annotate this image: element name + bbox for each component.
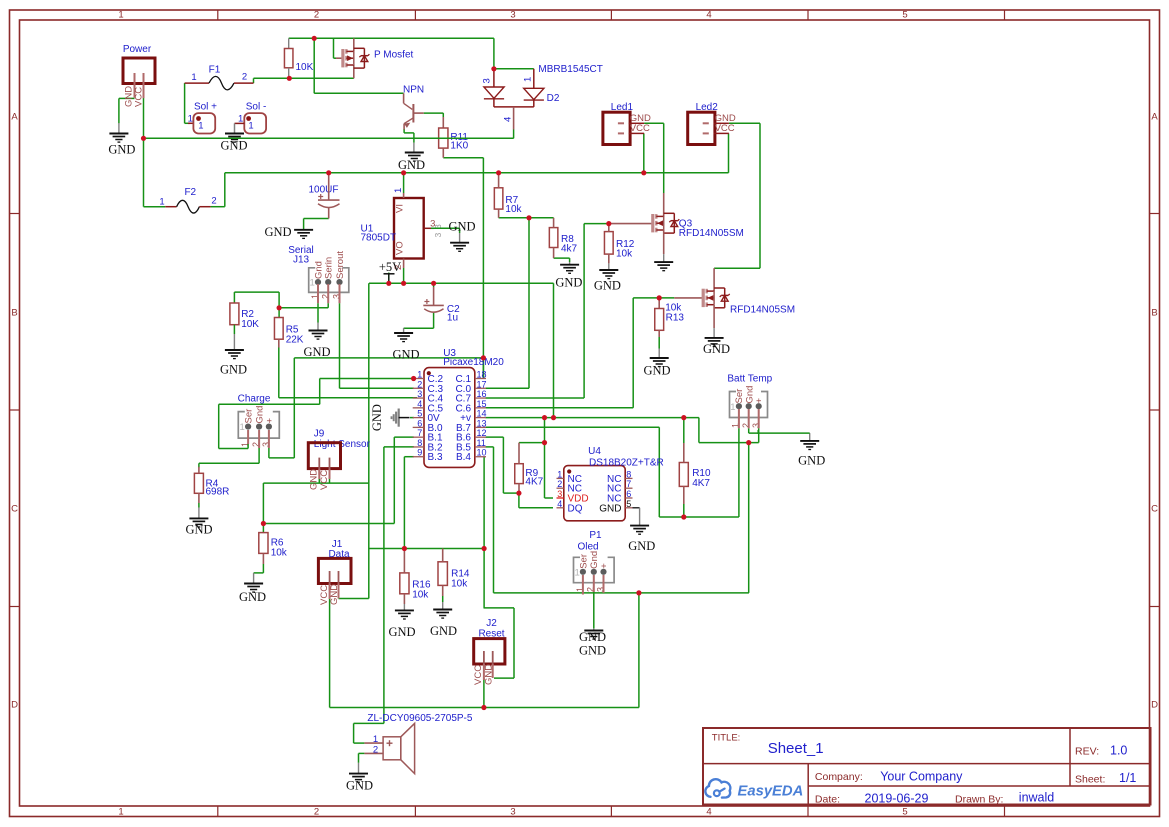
svg-text:10k: 10k (505, 204, 522, 215)
svg-text:1: 1 (159, 197, 164, 208)
svg-text:1: 1 (557, 469, 562, 479)
svg-text:4: 4 (706, 10, 711, 21)
svg-text:1: 1 (188, 114, 193, 125)
svg-text:6: 6 (417, 418, 422, 428)
svg-text:1: 1 (248, 120, 253, 131)
svg-text:100UF: 100UF (308, 184, 338, 195)
svg-text:+: + (754, 398, 765, 404)
svg-text:DQ: DQ (568, 503, 583, 514)
svg-text:GND: GND (220, 139, 247, 153)
svg-text:REV:: REV: (1075, 745, 1099, 757)
svg-text:1: 1 (118, 807, 123, 818)
svg-text:VO: VO (395, 241, 406, 255)
svg-text:Your Company: Your Company (880, 770, 963, 784)
svg-text:B.3: B.3 (428, 452, 443, 463)
svg-text:A: A (1151, 112, 1158, 123)
svg-text:8: 8 (417, 438, 422, 448)
svg-text:Serin: Serin (324, 257, 335, 279)
svg-text:Led1: Led1 (611, 102, 634, 113)
svg-text:22K: 22K (286, 334, 304, 345)
svg-text:GND: GND (264, 225, 291, 239)
svg-text:2: 2 (314, 10, 319, 21)
svg-text:3: 3 (417, 389, 422, 399)
svg-text:1: 1 (417, 370, 422, 380)
svg-text:GND: GND (448, 220, 475, 234)
svg-text:F2: F2 (184, 187, 196, 198)
svg-text:2: 2 (373, 745, 378, 756)
svg-text:1/1: 1/1 (1119, 771, 1136, 785)
svg-text:GND: GND (703, 342, 730, 356)
svg-text:10k: 10k (616, 249, 633, 260)
svg-text:GND: GND (579, 644, 606, 658)
svg-text:MBRB1545CT: MBRB1545CT (538, 64, 602, 75)
svg-text:VCC: VCC (715, 123, 735, 134)
svg-text:C: C (1151, 504, 1158, 515)
svg-text:P Mosfet: P Mosfet (374, 50, 413, 61)
svg-text:U4: U4 (588, 446, 601, 457)
svg-text:B: B (1151, 308, 1157, 319)
svg-text:3: 3 (482, 78, 493, 83)
svg-text:TITLE:: TITLE: (712, 733, 741, 744)
svg-text:DS18B20Z+T&R: DS18B20Z+T&R (589, 457, 664, 468)
svg-text:VCC: VCC (630, 123, 650, 134)
svg-text:J2: J2 (486, 618, 497, 629)
svg-text:9: 9 (417, 448, 422, 458)
svg-text:inwald: inwald (1019, 791, 1054, 805)
svg-text:10k: 10k (412, 589, 429, 600)
svg-text:RFD14N05SM: RFD14N05SM (679, 228, 744, 239)
svg-text:1.0: 1.0 (1110, 743, 1127, 757)
svg-text:B: B (11, 308, 17, 319)
svg-text:Drawn By:: Drawn By: (955, 793, 1003, 805)
svg-text:A: A (11, 112, 18, 123)
svg-text:GND: GND (108, 143, 135, 157)
svg-text:7805DT: 7805DT (361, 232, 397, 243)
svg-text:1: 1 (198, 120, 203, 131)
svg-text:15: 15 (477, 399, 487, 409)
svg-text:2: 2 (211, 196, 216, 207)
svg-text:Ser: Ser (244, 409, 255, 424)
svg-text:R13: R13 (666, 313, 685, 324)
svg-text:VCC: VCC (319, 470, 330, 490)
svg-text:2: 2 (557, 479, 562, 489)
svg-text:P1: P1 (589, 530, 602, 541)
svg-text:Power: Power (123, 44, 152, 55)
svg-text:GND: GND (430, 624, 457, 638)
svg-text:10K: 10K (296, 62, 314, 73)
svg-text:Date:: Date: (815, 793, 840, 805)
svg-text:10k: 10k (451, 578, 468, 589)
svg-text:+: + (599, 563, 610, 569)
svg-text:GND: GND (220, 363, 247, 377)
svg-text:2: 2 (314, 807, 319, 818)
svg-text:D2: D2 (547, 93, 560, 104)
svg-text:GND: GND (599, 503, 621, 514)
svg-text:5: 5 (902, 807, 907, 818)
svg-text:1: 1 (191, 72, 196, 83)
svg-text:1: 1 (522, 77, 533, 82)
svg-text:1K0: 1K0 (450, 140, 468, 151)
svg-text:1u: 1u (447, 313, 458, 324)
svg-text:Sheet:: Sheet: (1075, 774, 1105, 786)
svg-text:3: 3 (510, 807, 515, 818)
svg-text:16: 16 (477, 389, 487, 399)
svg-text:GND: GND (628, 539, 655, 553)
svg-text:2: 2 (417, 379, 422, 389)
svg-text:Light Sensor: Light Sensor (314, 439, 371, 450)
svg-text:12: 12 (477, 428, 487, 438)
svg-text:4k7: 4k7 (561, 244, 578, 255)
svg-text:Sol +: Sol + (194, 102, 217, 113)
svg-text:1: 1 (393, 188, 404, 193)
svg-text:Company:: Company: (815, 771, 863, 783)
svg-text:D: D (1151, 700, 1158, 711)
svg-text:10K: 10K (241, 319, 259, 330)
svg-text:3: 3 (510, 10, 515, 21)
svg-text:18: 18 (477, 370, 487, 380)
svg-text:Sheet_1: Sheet_1 (768, 740, 824, 757)
svg-text:GND: GND (398, 158, 425, 172)
svg-text:GND: GND (388, 625, 415, 639)
svg-text:Sol -: Sol - (246, 102, 267, 113)
svg-text:VCC: VCC (134, 87, 145, 107)
svg-text:4: 4 (502, 117, 513, 122)
svg-text:10k: 10k (271, 547, 288, 558)
svg-text:13: 13 (477, 418, 487, 428)
svg-text:GND: GND (303, 345, 330, 359)
svg-text:5: 5 (417, 409, 422, 419)
svg-text:VI: VI (395, 204, 406, 213)
svg-text:J13: J13 (293, 255, 310, 266)
svg-text:5: 5 (626, 499, 631, 509)
svg-text:NPN: NPN (403, 84, 424, 95)
svg-text:GND: GND (798, 453, 825, 467)
svg-text:7: 7 (417, 428, 422, 438)
svg-text:3: 3 (557, 489, 562, 499)
svg-text:RFD14N05SM: RFD14N05SM (730, 304, 795, 315)
svg-text:4: 4 (706, 807, 711, 818)
svg-text:4K7: 4K7 (692, 478, 710, 489)
svg-text:17: 17 (477, 379, 487, 389)
svg-text:EasyEDA: EasyEDA (738, 784, 804, 800)
svg-text:GND: GND (370, 404, 384, 431)
svg-text:GND: GND (309, 469, 320, 490)
svg-text:2019-06-29: 2019-06-29 (865, 791, 929, 805)
svg-text:+5V: +5V (379, 260, 401, 274)
svg-text:GND: GND (579, 630, 606, 644)
svg-text:GND: GND (555, 276, 582, 290)
svg-text:ZL-DCY09605-2705P-5: ZL-DCY09605-2705P-5 (367, 713, 472, 724)
svg-text:D: D (11, 700, 18, 711)
svg-text:Led2: Led2 (696, 102, 719, 113)
svg-text:3: 3 (433, 233, 443, 238)
svg-text:10: 10 (477, 448, 487, 458)
svg-text:4: 4 (557, 499, 562, 509)
svg-text:698R: 698R (206, 486, 230, 497)
svg-text:Batt Temp: Batt Temp (727, 374, 772, 385)
svg-text:+: + (264, 418, 275, 424)
svg-text:C: C (11, 504, 18, 515)
svg-text:GND: GND (643, 363, 670, 377)
svg-text:11: 11 (477, 438, 486, 448)
svg-text:14: 14 (477, 409, 487, 419)
svg-text:GND: GND (239, 590, 266, 604)
svg-text:8: 8 (626, 469, 631, 479)
svg-text:Ser: Ser (734, 389, 745, 404)
svg-text:7: 7 (626, 479, 631, 489)
svg-text:6: 6 (626, 489, 631, 499)
svg-text:Ser: Ser (578, 554, 589, 569)
svg-text:1: 1 (118, 10, 123, 21)
svg-text:2: 2 (242, 72, 247, 83)
svg-text:Serout: Serout (335, 251, 346, 279)
svg-text:F1: F1 (209, 65, 221, 76)
svg-text:GND: GND (185, 522, 212, 536)
svg-text:Picaxe18M20: Picaxe18M20 (443, 357, 504, 368)
svg-text:4K7: 4K7 (525, 476, 543, 487)
svg-text:J9: J9 (314, 428, 325, 439)
svg-text:GND: GND (594, 279, 621, 293)
svg-text:4: 4 (417, 399, 422, 409)
svg-text:GND: GND (392, 347, 419, 361)
svg-text:5: 5 (902, 10, 907, 21)
svg-text:GND: GND (346, 779, 373, 793)
svg-text:B.4: B.4 (456, 452, 471, 463)
svg-text:Charge: Charge (238, 394, 271, 405)
